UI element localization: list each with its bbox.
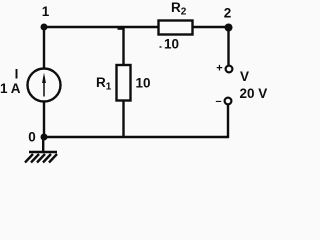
wire top: R2 to node2 (193, 26, 229, 28)
ground hatch 1 (25, 154, 33, 163)
node 0 junction dot (41, 134, 48, 141)
resistor R1 body (117, 65, 131, 101)
speck left of 10 (160, 46, 162, 48)
ground stub (42, 137, 44, 152)
node 2 junction dot (225, 24, 233, 32)
svg-text:10: 10 (164, 37, 179, 52)
svg-text:+: + (216, 63, 222, 75)
node 1 junction dot (41, 24, 48, 31)
ground hatch 5 (49, 154, 57, 163)
wire: node2 down to + terminal (227, 28, 229, 66)
junction nub on top wire left of R1 branch (118, 27, 124, 30)
wire: - terminal down and to bottom wire corner (227, 105, 229, 139)
svg-text:10: 10 (136, 76, 151, 91)
svg-text:0: 0 (28, 130, 36, 145)
wire: current source down to node0 (43, 102, 45, 138)
+ terminal circle (226, 66, 233, 73)
svg-text:1: 1 (42, 4, 50, 19)
current source I1 circle (28, 69, 61, 102)
ground hatch 4 (43, 154, 51, 163)
resistor R2 body (159, 21, 193, 35)
wire: top wire down to R1 (122, 27, 124, 65)
svg-text:V: V (240, 69, 249, 84)
svg-text:I: I (15, 67, 19, 82)
svg-text:2: 2 (224, 6, 232, 21)
wire bottom: node0 to right corner (44, 136, 229, 139)
svg-text:20 V: 20 V (240, 86, 268, 101)
wire: R1 down to bottom wire (122, 101, 124, 138)
ground hatch 3 (37, 154, 45, 163)
ground hatch 2 (31, 154, 39, 163)
ground bar (29, 151, 57, 154)
svg-text:–: – (215, 96, 221, 108)
wire top: node1 to R2 (44, 26, 159, 28)
svg-text:1 A: 1 A (0, 81, 21, 96)
wire: node1 down to current source (43, 27, 45, 69)
- terminal circle (225, 98, 232, 105)
current source arrow (points up) (43, 77, 45, 97)
